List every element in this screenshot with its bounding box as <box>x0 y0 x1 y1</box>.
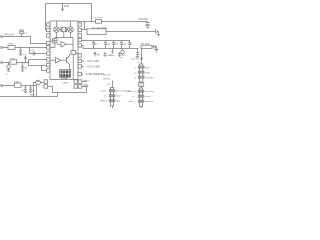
ferrite FB1 <box>8 45 15 49</box>
pin 16 right <box>78 44 81 47</box>
wire bottom bus <box>0 96 58 98</box>
svg-text:C12: C12 <box>106 44 111 46</box>
svg-text:(-)→: (-)→ <box>104 96 109 98</box>
svg-text:C10: C10 <box>107 54 112 56</box>
capacitor C27 <box>119 52 121 54</box>
svg-text:→VCC GPS: →VCC GPS <box>85 59 100 63</box>
antenna E1 <box>62 4 64 11</box>
ground arrow A <box>112 49 114 53</box>
wire input D <box>3 85 37 87</box>
wire cap bus <box>82 40 131 42</box>
wire osc bus <box>63 32 65 38</box>
svg-text:MK1: MK1 <box>30 94 35 96</box>
wire input B <box>3 47 47 49</box>
capacitor C13 <box>113 41 115 43</box>
pin 15 right <box>78 54 81 57</box>
ferrite FB3 <box>15 83 22 87</box>
capacitor C10 <box>104 52 106 54</box>
wire input A <box>3 37 47 44</box>
pin 2 <box>47 28 50 31</box>
net SPK- <box>82 85 88 87</box>
svg-text:DBG RX→: DBG RX→ <box>128 91 139 93</box>
capacitor C14 <box>121 41 123 43</box>
ferrite FB2 <box>10 60 17 64</box>
ground <box>145 25 149 27</box>
audio pins <box>44 80 48 84</box>
svg-text:L1 10uH: L1 10uH <box>94 17 103 19</box>
svg-text:GND→: GND→ <box>128 101 136 103</box>
svg-text:LM35: LM35 <box>63 83 70 85</box>
wire circle stubs to top edge <box>56 21 58 27</box>
diode D1 <box>21 34 23 37</box>
svg-text:(+)TXD: (+)TXD <box>103 75 111 77</box>
wire filter out <box>106 31 155 33</box>
net SPK+ <box>82 81 87 83</box>
pin 14 right <box>78 59 81 62</box>
capacitor C30 <box>137 49 139 53</box>
filter B1 <box>87 29 106 35</box>
svg-text:GSM: GSM <box>145 96 150 98</box>
svg-text:C8: C8 <box>24 67 28 69</box>
net PWRKEY <box>81 73 83 75</box>
connector J3 <box>139 83 144 87</box>
capacitor C11 <box>93 41 95 43</box>
svg-text:(-)RXD: (-)RXD <box>103 79 111 81</box>
svg-text:GND: GND <box>145 72 150 74</box>
svg-text:TX→: TX→ <box>132 96 137 98</box>
op-amp A2 <box>56 58 61 64</box>
svg-text:R8 100k: R8 100k <box>141 44 151 46</box>
svg-text:7p: 7p <box>130 44 133 46</box>
wire branch B2 <box>30 48 47 54</box>
svg-text:C22: C22 <box>122 44 127 46</box>
capacitor CP1 <box>121 50 125 54</box>
svg-text:C9: C9 <box>120 57 124 59</box>
svg-text:GND: GND <box>116 96 121 98</box>
svg-text:ANT1: ANT1 <box>64 5 71 8</box>
mixer circle left <box>54 27 60 33</box>
svg-text:GPS ANT: GPS ANT <box>4 34 15 37</box>
capacitor C15 <box>129 41 131 43</box>
pin 1 <box>47 23 50 26</box>
svg-text:C31 100n: C31 100n <box>138 19 149 21</box>
transistor Q1 <box>66 57 68 63</box>
capacitor C3 up <box>25 59 27 63</box>
IC U1 body <box>50 21 78 80</box>
wire rail to filter <box>84 22 86 30</box>
svg-text:4p7: 4p7 <box>94 44 99 46</box>
block D1 <box>71 51 76 55</box>
capacitor C7 <box>8 63 10 65</box>
pin 7 <box>47 58 50 61</box>
inductor L1 <box>96 19 102 23</box>
connector J2 <box>112 81 114 88</box>
svg-text:NETLIG: NETLIG <box>145 101 154 103</box>
wire osc links <box>59 29 61 31</box>
op-amp A1 <box>61 42 66 48</box>
net VCC_GSM <box>81 66 84 68</box>
capacitor C8 <box>22 63 24 67</box>
svg-text:2: 2 <box>135 72 137 74</box>
svg-text:C6: C6 <box>31 50 35 52</box>
wire branch C <box>29 59 47 61</box>
pin 8 <box>47 63 50 66</box>
pin 6 <box>47 52 50 55</box>
junction dots <box>8 3 138 97</box>
svg-text:→GSM PWRKEY: →GSM PWRKEY <box>83 72 104 76</box>
microphone MK1 <box>36 80 41 85</box>
svg-text:→VCC GSM: →VCC GSM <box>85 65 101 69</box>
wire input C <box>3 62 29 64</box>
connector J1 <box>139 64 142 82</box>
svg-text:PW(+)→: PW(+)→ <box>100 101 109 103</box>
svg-text:UM3: UM3 <box>63 78 69 80</box>
pin 3 <box>47 34 50 37</box>
capacitor C12 <box>105 41 107 43</box>
svg-text:Z1: Z1 <box>24 33 27 35</box>
net VCC_GPS <box>81 60 84 62</box>
block F1 <box>53 39 58 44</box>
pin 13 right <box>78 65 81 68</box>
svg-text:C27: C27 <box>122 54 127 56</box>
wire right top drop <box>91 4 93 22</box>
ground <box>155 49 159 51</box>
wire to J1 <box>141 49 143 65</box>
mixer circle right <box>68 27 74 33</box>
pin 5 <box>47 46 50 49</box>
svg-text:SPK+: SPK+ <box>84 80 91 82</box>
crystal X1 <box>62 27 66 31</box>
pin 4 <box>47 41 50 44</box>
svg-text:C30 1u: C30 1u <box>131 59 139 61</box>
svg-text:3: 3 <box>135 77 137 79</box>
capacitor C5 <box>20 48 22 51</box>
wire branch C3 <box>42 66 47 71</box>
pin 20 right <box>78 23 81 26</box>
svg-text:TX RXD: TX RXD <box>145 77 154 79</box>
pin 12 right <box>78 72 81 75</box>
svg-text:C7: C7 <box>6 74 10 76</box>
pin 18 right <box>78 34 81 37</box>
connector J7 mark <box>1 85 3 87</box>
pin 9 <box>47 69 50 72</box>
pin 17 right <box>78 38 81 41</box>
svg-text:5V(USB): 5V(USB) <box>145 91 154 93</box>
wire top antenna loop <box>46 3 92 5</box>
svg-text:FLT 1575.42M: FLT 1575.42M <box>92 28 107 30</box>
svg-text:1: 1 <box>135 67 137 69</box>
wire speaker return <box>48 86 87 92</box>
capacitor C17 <box>30 86 32 88</box>
svg-text:LED: LED <box>116 101 121 103</box>
svg-text:GPS: GPS <box>145 67 150 69</box>
capacitor C6 series <box>32 52 34 56</box>
svg-text:1u: 1u <box>32 90 35 92</box>
svg-text:J2: J2 <box>107 84 110 86</box>
connector J4 mark <box>1 36 3 38</box>
connector J5 mark <box>1 47 3 49</box>
svg-text:TX(+)→: TX(+)→ <box>100 91 108 93</box>
pin 19 right <box>78 28 81 31</box>
ground bus <box>81 46 83 49</box>
svg-text:VB: VB <box>97 54 101 56</box>
wire D return <box>36 86 38 97</box>
wire left antenna drop <box>46 4 47 31</box>
svg-text:2p2: 2p2 <box>114 44 119 46</box>
VBAT arrow <box>94 53 96 57</box>
capacitor C16 <box>25 86 27 88</box>
logic block <box>60 70 71 78</box>
resistor R8 <box>141 45 152 48</box>
connector J6 mark <box>1 62 3 64</box>
wire VBAT rail <box>78 21 147 23</box>
